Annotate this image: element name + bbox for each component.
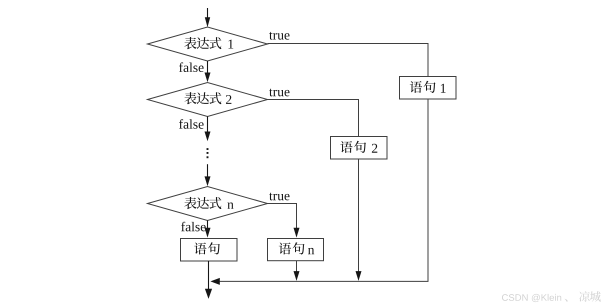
process box: 语句 1	[400, 77, 457, 100]
wire: entry arrow into decision 1	[205, 8, 210, 27]
label: false (decision 2)	[179, 119, 204, 129]
wire: exit arrow below 语句 box	[205, 261, 212, 299]
wire: from 语句 1 down and left to merge point arrow	[210, 99, 428, 285]
decision diamond: 表达式 2	[148, 83, 268, 117]
wire: true branch 1 over to 语句 1	[268, 44, 429, 77]
label: true (decision 2)	[269, 89, 289, 97]
label: watermark CSDN @Klein、凉城	[502, 291, 601, 302]
process box: 语句 (else branch)	[181, 239, 238, 262]
wire: from 语句 n down to merge line	[294, 261, 300, 281]
label: true (decision n)	[269, 193, 289, 201]
process box: 语句 2	[331, 137, 388, 160]
wire: false arrow decision 2 down to ellipsis	[205, 117, 211, 142]
process box: 语句 n	[268, 239, 324, 261]
wire: false arrow decision n into 语句 box	[205, 221, 211, 238]
label: true (decision 1)	[269, 32, 289, 40]
wire: from 语句 2 down to merge line	[356, 159, 362, 281]
wire: true branch n arrow into 语句 n	[268, 204, 300, 238]
decision diamond: 表达式 n	[148, 187, 268, 221]
wire: true branch 2 over to 语句 2	[268, 100, 359, 137]
wire: false arrow decision 1 to decision 2	[205, 61, 211, 82]
decision diamond: 表达式 1	[148, 27, 268, 61]
label: false (decision 1)	[179, 62, 204, 72]
wire: arrow from ellipsis to decision n	[205, 164, 211, 186]
node: vertical ellipsis (more conditions)	[207, 148, 209, 158]
label: false (decision n)	[181, 222, 206, 232]
